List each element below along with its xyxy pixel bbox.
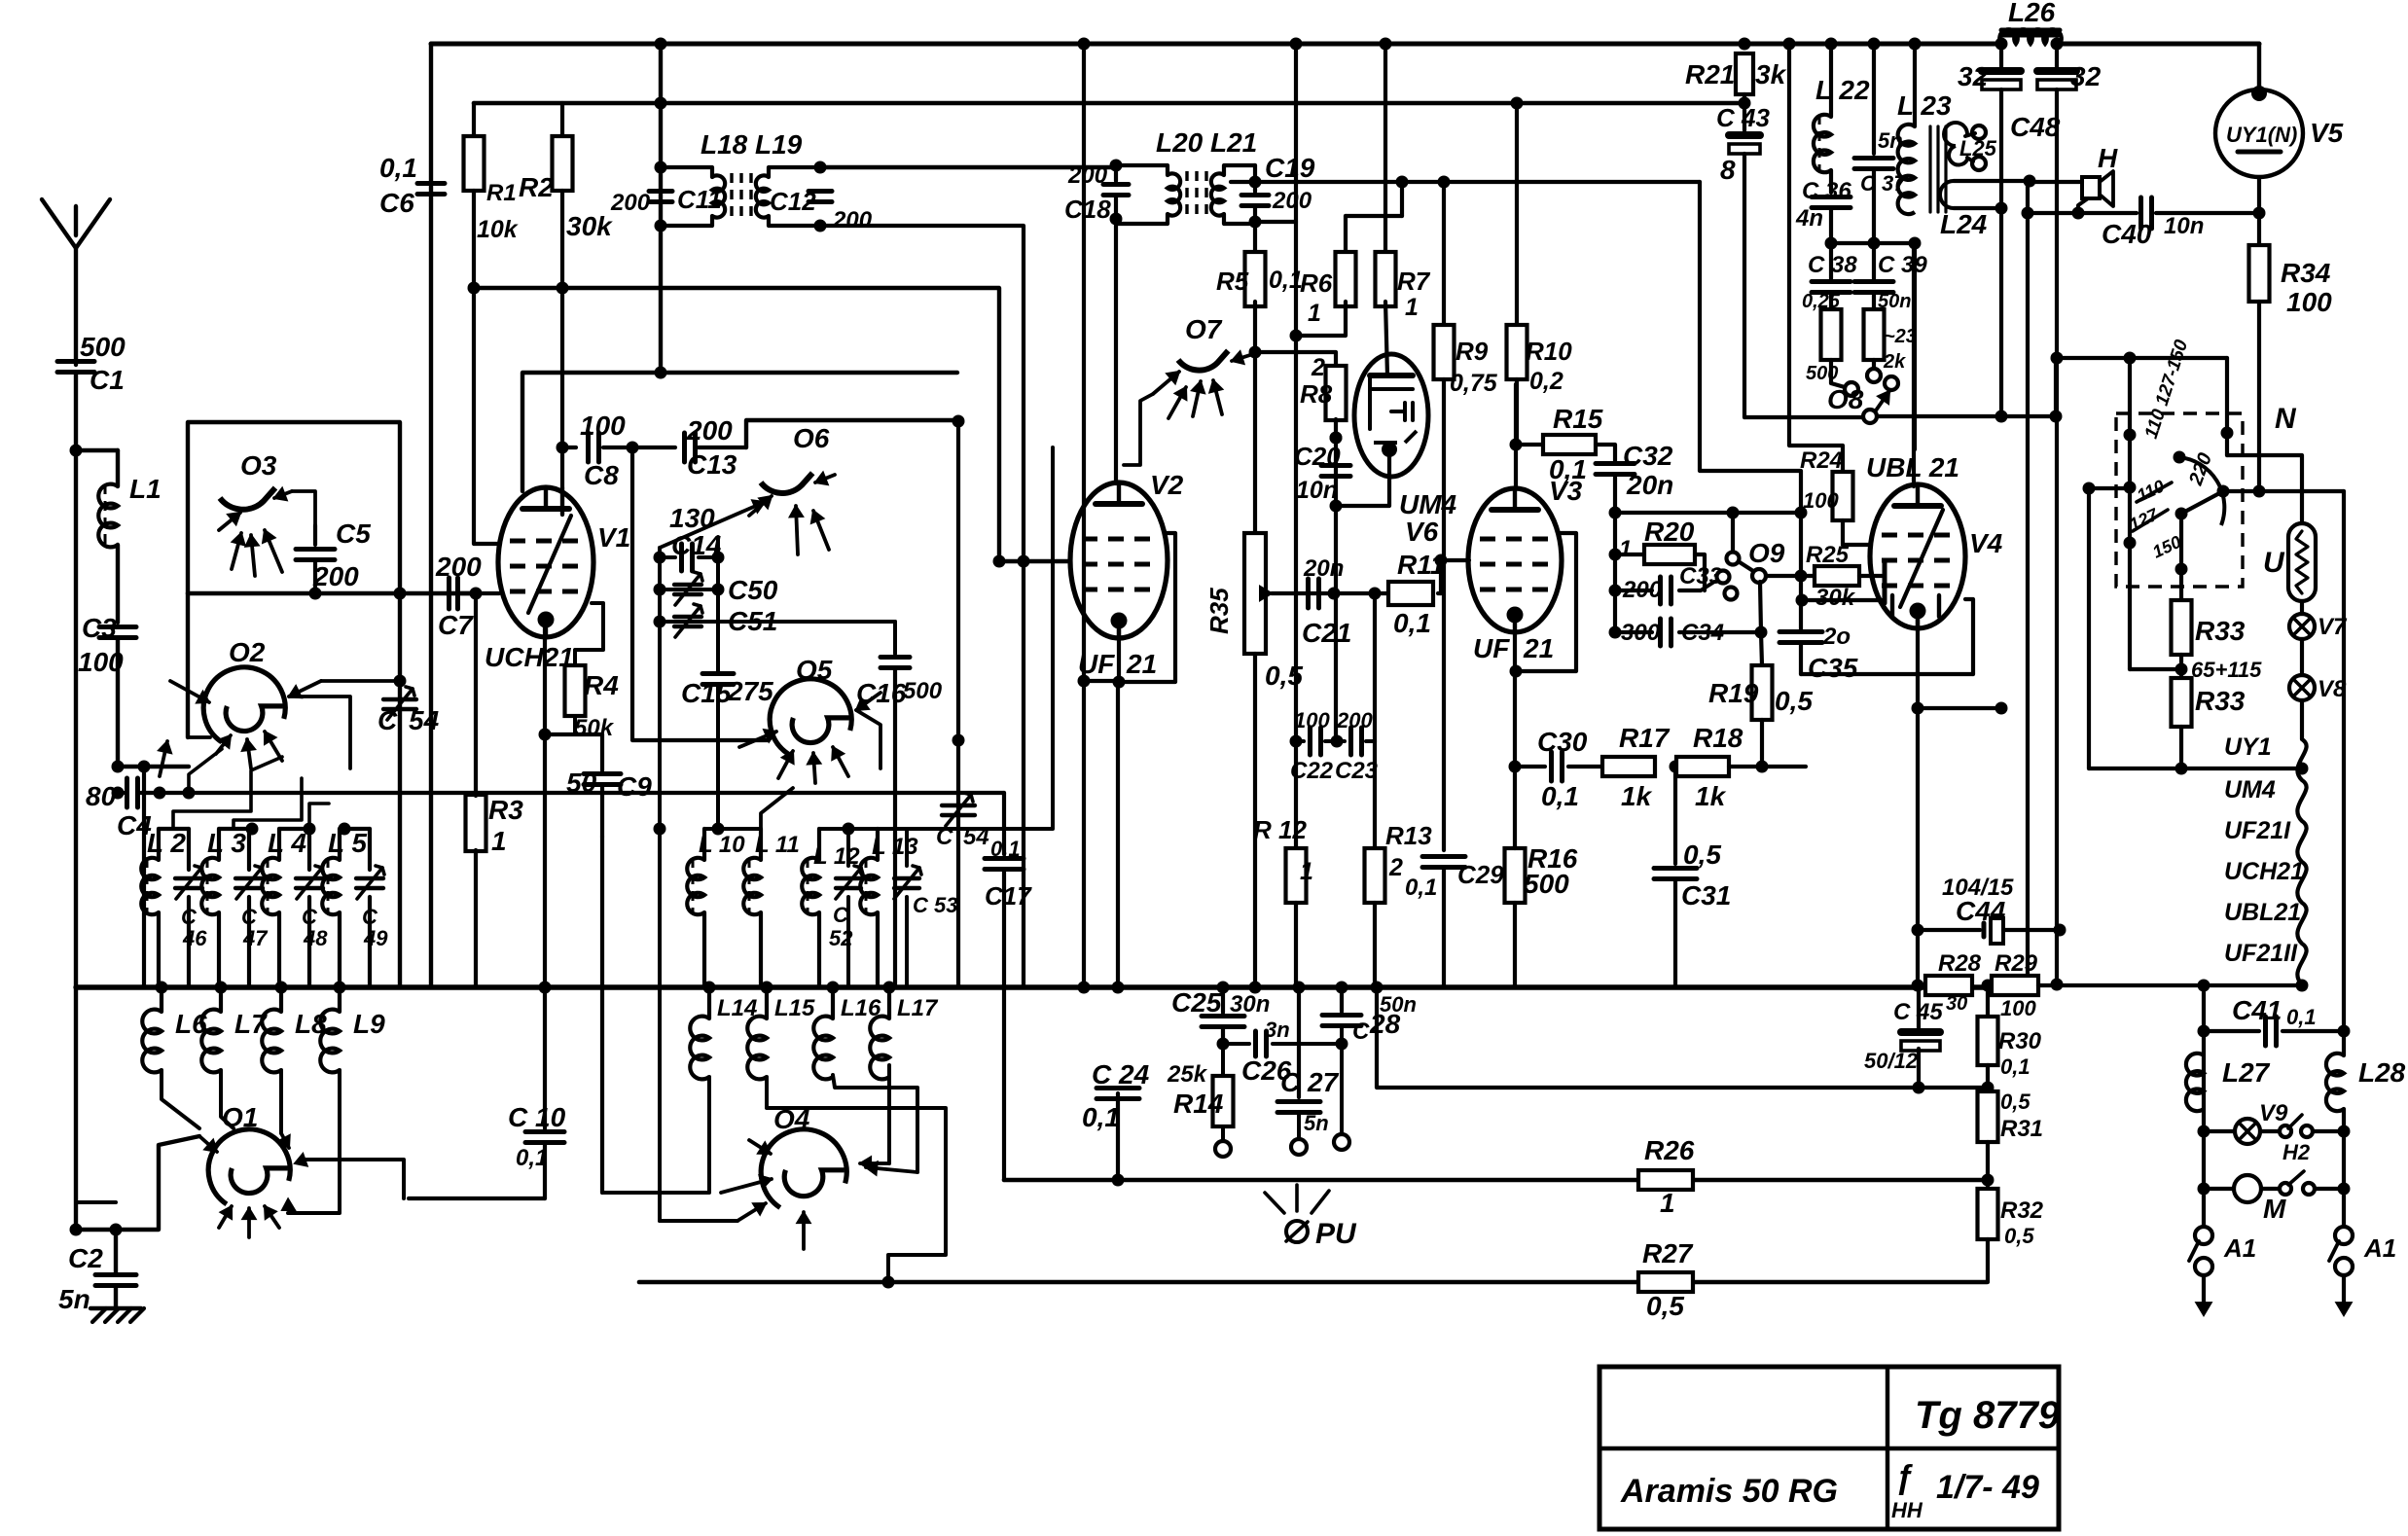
svg-text:C29: C29	[1457, 860, 1504, 889]
svg-text:V2: V2	[1150, 470, 1184, 500]
svg-text:Aramis 50 RG: Aramis 50 RG	[1620, 1473, 1838, 1510]
wire speaker to L24	[2030, 180, 2082, 184]
svg-text:200: 200	[686, 415, 733, 446]
svg-text:R18: R18	[1693, 723, 1743, 753]
ground	[92, 1308, 106, 1322]
svg-text:300: 300	[1621, 620, 1661, 646]
lamp V8	[2300, 639, 2304, 675]
core L20/L21	[1185, 171, 1188, 220]
wire detector drop to O9	[1700, 182, 1801, 631]
wire voice coil to ground bus	[2026, 182, 2030, 987]
wire R12 column	[1294, 44, 1298, 848]
svg-text:50k: 50k	[574, 715, 615, 741]
svg-text:10n: 10n	[1296, 477, 1338, 504]
wire AVC to V1 grid	[474, 288, 500, 544]
resistor R13	[1373, 741, 1377, 848]
svg-text:R32: R32	[2000, 1197, 2044, 1224]
svg-text:C 43: C 43	[1716, 103, 1770, 132]
wire C9 to ground bus	[600, 837, 604, 1193]
wire detector line	[1231, 180, 1700, 184]
svg-text:UY1: UY1	[2224, 733, 2272, 761]
inductor L28	[2342, 491, 2346, 1055]
svg-text:C12: C12	[770, 187, 816, 216]
svg-text:46: 46	[182, 926, 207, 950]
svg-text:52: 52	[829, 926, 853, 950]
svg-text:2: 2	[1311, 354, 1325, 381]
wire O9 to R25	[1766, 574, 1815, 578]
svg-text:L26: L26	[2008, 0, 2056, 27]
svg-text:R20: R20	[1644, 517, 1695, 547]
wire V2 cathode	[1117, 626, 1121, 682]
svg-text:A1: A1	[2363, 1233, 2396, 1263]
potentiometer R35	[1244, 533, 1266, 654]
variable capacitor C54	[383, 697, 416, 701]
inductor L15	[765, 987, 769, 1018]
trimmer capacitor C52	[836, 876, 861, 880]
svg-text:C 10: C 10	[508, 1102, 566, 1132]
svg-text:H2: H2	[2282, 1140, 2311, 1164]
svg-text:3k: 3k	[1755, 59, 1787, 89]
wire V3 anode	[1514, 384, 1518, 488]
inductor L26 mains choke	[2001, 28, 2060, 33]
svg-text:C35: C35	[1808, 653, 1858, 683]
svg-text:C23: C23	[1335, 758, 1379, 784]
wire bias rail	[1377, 987, 1988, 1088]
svg-text:L28: L28	[2358, 1057, 2406, 1088]
wire tank 2 top	[219, 827, 249, 831]
svg-text:C41: C41	[2232, 995, 2282, 1025]
resistor R16	[1505, 848, 1526, 903]
svg-text:L9: L9	[353, 1009, 385, 1039]
wire V2 screen box	[1119, 533, 1175, 682]
svg-text:UM4: UM4	[2224, 776, 2276, 804]
svg-text:C 36: C 36	[1802, 178, 1851, 204]
svg-text:C13: C13	[687, 449, 737, 480]
tube V6 UM4 magic eye	[1354, 354, 1428, 477]
node R28 R29 junction	[1982, 980, 1995, 992]
svg-text:8: 8	[1720, 155, 1736, 185]
wire O7 feed to R8/C20	[1255, 352, 1336, 366]
svg-text:H: H	[2098, 143, 2118, 173]
svg-text:L20: L20	[1156, 127, 1204, 158]
svg-text:10k: 10k	[477, 216, 519, 243]
wire L6-L9 to O1	[162, 1070, 199, 1128]
trimmer capacitor C50	[654, 584, 666, 596]
wire O6 box	[746, 420, 958, 447]
resistor R14	[1221, 1044, 1225, 1076]
wire heater return	[2089, 767, 2302, 770]
resistor R25	[1815, 566, 1859, 586]
wire tank 4 top	[340, 827, 370, 831]
svg-text:C20: C20	[1294, 442, 1341, 471]
svg-text:48: 48	[303, 926, 328, 950]
wire O9 pivot down	[1760, 582, 1761, 632]
capacitor C26	[1223, 1042, 1249, 1046]
svg-text:C30: C30	[1537, 727, 1588, 757]
resistor R8	[1326, 366, 1347, 420]
resistor R23	[1864, 309, 1885, 360]
tube V5 UY1 rectifier	[2257, 44, 2261, 92]
wire O5 right link	[856, 710, 881, 768]
svg-text:0,5: 0,5	[1683, 839, 1721, 870]
wire oscillator line	[188, 591, 476, 595]
svg-text:100: 100	[1803, 488, 1839, 513]
wire tank risers	[173, 757, 282, 829]
resistor R28	[1925, 976, 1972, 995]
svg-text:100: 100	[2000, 996, 2036, 1020]
node C25 C26	[1217, 1038, 1230, 1051]
svg-text:HH: HH	[1891, 1498, 1923, 1522]
wire left vertical from top bus	[429, 44, 433, 987]
svg-text:L19: L19	[755, 129, 803, 160]
svg-text:C31: C31	[1681, 880, 1731, 911]
svg-text:C 27: C 27	[1280, 1067, 1340, 1097]
svg-text:L 4: L 4	[268, 828, 306, 858]
inductor L27	[2186, 1054, 2204, 1111]
node R33 junction	[2175, 663, 2188, 676]
wire R27 line	[639, 1280, 1987, 1285]
resistor R33 upper	[2179, 569, 2183, 600]
wire tone network top	[1609, 507, 1622, 519]
wire L17 to O4	[887, 1065, 891, 1163]
node V1 grid top	[557, 442, 569, 454]
svg-text:1: 1	[1405, 294, 1419, 321]
svg-text:R2: R2	[519, 172, 554, 202]
svg-text:C9: C9	[617, 771, 652, 802]
trimmer capacitor C49	[356, 876, 383, 880]
dashed box N selector	[2116, 413, 2243, 587]
svg-text:R25: R25	[1806, 542, 1850, 568]
capacitor C28	[1340, 987, 1344, 1012]
capacitor C22	[1290, 735, 1303, 748]
trimmer capacitor C51	[654, 616, 666, 628]
wire L22 block bottom	[1831, 241, 1915, 245]
resistor R6	[1344, 216, 1348, 257]
svg-text:V4: V4	[1969, 528, 2003, 558]
svg-text:V1: V1	[597, 522, 630, 553]
svg-text:R31: R31	[2000, 1116, 2043, 1142]
svg-text:C40: C40	[2102, 219, 2152, 249]
resistor R1	[472, 103, 476, 136]
svg-text:C6: C6	[379, 188, 414, 218]
svg-text:0,1: 0,1	[1393, 608, 1431, 638]
svg-text:200: 200	[435, 552, 482, 582]
wire L19 bottom to V2 grid	[820, 226, 1024, 987]
svg-text:~23: ~23	[1884, 326, 1917, 347]
capacitor C11	[655, 161, 667, 174]
wire O2 right to L-taps	[289, 697, 350, 768]
svg-text:UF21I: UF21I	[2224, 817, 2291, 844]
resistor R19	[1755, 626, 1768, 639]
svg-text:R7: R7	[1397, 267, 1431, 296]
svg-text:1: 1	[1300, 858, 1313, 885]
wire O1 box left	[116, 1136, 199, 1230]
svg-text:L15: L15	[774, 995, 815, 1021]
switch H2	[2260, 1129, 2279, 1133]
svg-text:UCH21: UCH21	[485, 642, 574, 672]
svg-text:5n: 5n	[58, 1284, 90, 1314]
capacitor C48 right 32	[2055, 44, 2059, 68]
inductor L7	[219, 987, 223, 1012]
svg-text:UF: UF	[1473, 633, 1510, 663]
wire tank 3 top	[279, 827, 309, 831]
inductor L14	[707, 987, 711, 1018]
wire C8 tap down to O5	[632, 447, 769, 740]
svg-text:0,1: 0,1	[1405, 875, 1437, 901]
svg-text:L1: L1	[129, 474, 162, 504]
svg-text:200: 200	[312, 561, 359, 591]
resistor R15	[1516, 443, 1542, 447]
resistor R33 lower	[2172, 678, 2192, 727]
tube V1 UCH21	[498, 487, 593, 637]
inductor L21	[1224, 165, 1255, 175]
wire L19 top to L20	[820, 165, 1116, 169]
svg-text:C15: C15	[681, 678, 732, 708]
inductor L17	[887, 987, 891, 1018]
resistor R24	[1833, 472, 1853, 520]
svg-text:100: 100	[2286, 287, 2332, 317]
svg-text:C: C	[377, 705, 398, 735]
svg-text:25k: 25k	[1167, 1061, 1208, 1088]
svg-text:C50: C50	[728, 575, 778, 605]
svg-text:130: 130	[669, 503, 715, 533]
wire mains top line	[2056, 358, 2227, 416]
svg-text:O7: O7	[1185, 314, 1223, 344]
svg-text:C 39: C 39	[1878, 252, 1927, 278]
trimmer capacitor C48	[296, 876, 323, 880]
resistor R21	[1739, 38, 1751, 51]
capacitor C17	[1002, 793, 1006, 854]
resistor R3	[466, 795, 486, 851]
svg-text:21: 21	[1523, 633, 1554, 663]
wire V1 anode riser	[522, 373, 957, 491]
core L18/L19	[730, 173, 733, 222]
plug A1 right	[2335, 1227, 2353, 1244]
svg-text:1: 1	[1619, 536, 1632, 562]
svg-text:2o: 2o	[1822, 624, 1851, 650]
svg-text:3n: 3n	[1265, 1018, 1290, 1042]
wire IF1 tank vertical	[659, 44, 663, 373]
svg-text:L18: L18	[701, 129, 748, 160]
svg-text:80: 80	[86, 781, 117, 811]
capacitor C39	[1854, 279, 1893, 284]
wire ground bus	[76, 984, 2028, 989]
resistor R12	[1286, 848, 1307, 903]
wire N box left column	[2087, 488, 2091, 768]
resistor R17	[1602, 757, 1655, 776]
wire mains tap 220	[2223, 489, 2344, 493]
svg-text:Tg 8779: Tg 8779	[1915, 1394, 2061, 1437]
svg-text:C19: C19	[1265, 153, 1315, 183]
svg-text:200: 200	[1067, 162, 1108, 189]
inductor L25	[1944, 123, 1967, 146]
svg-text:1k: 1k	[1695, 781, 1727, 811]
svg-text:O9: O9	[1748, 538, 1785, 568]
svg-text:500: 500	[1524, 869, 1569, 899]
svg-text:L 3: L 3	[207, 828, 246, 858]
resistor R10	[1515, 103, 1519, 323]
svg-text:2: 2	[1388, 854, 1403, 881]
svg-text:R3: R3	[488, 795, 523, 825]
capacitor C35	[1779, 629, 1822, 634]
svg-text:100: 100	[580, 411, 626, 441]
capacitor C48 left 32	[1999, 44, 2003, 68]
svg-text:0,1: 0,1	[1082, 1102, 1120, 1132]
resistor R5	[1245, 252, 1266, 306]
wire V5 cathode	[2257, 177, 2261, 213]
capacitor C21	[1306, 579, 1311, 608]
wire lamp column	[2202, 985, 2206, 1228]
svg-text:0,2: 0,2	[1529, 368, 1563, 395]
svg-text:C7: C7	[438, 610, 474, 640]
inductor L19	[769, 167, 820, 177]
wire L15 to O4	[767, 1077, 946, 1282]
svg-text:200: 200	[1336, 708, 1373, 732]
svg-text:R26: R26	[1644, 1135, 1695, 1165]
svg-text:C 45: C 45	[1893, 999, 1943, 1025]
svg-text:R30: R30	[1998, 1028, 2042, 1054]
plug A1 left	[2195, 1227, 2212, 1244]
svg-text:54: 54	[963, 824, 989, 850]
svg-text:C48: C48	[2010, 112, 2061, 142]
svg-text:200: 200	[1272, 188, 1312, 214]
resistor R29	[1992, 976, 2038, 995]
capacitor C32	[1596, 445, 1615, 461]
resistor R26	[1638, 1170, 1693, 1190]
wire V4 cathode	[1916, 613, 1920, 985]
svg-text:R19: R19	[1708, 678, 1759, 708]
svg-text:30k: 30k	[566, 211, 613, 241]
heater chain filaments	[2300, 700, 2304, 739]
node antenna-C2 junction	[70, 1224, 83, 1236]
svg-text:C 53: C 53	[913, 893, 957, 917]
wire V3 screen box	[1516, 533, 1576, 671]
wire R26 line	[1004, 1178, 1988, 1183]
antenna	[74, 248, 78, 365]
svg-text:32: 32	[2070, 61, 2102, 91]
svg-text:C51: C51	[728, 606, 777, 636]
svg-text:28: 28	[1369, 1009, 1401, 1039]
svg-text:R28: R28	[1938, 950, 1982, 977]
svg-text:R27: R27	[1642, 1238, 1694, 1268]
svg-text:65+115: 65+115	[2191, 658, 2262, 682]
wire U top	[2227, 455, 2302, 523]
capacitor C27	[1297, 987, 1301, 1097]
svg-text:C32: C32	[1623, 441, 1673, 471]
resistor R4	[575, 603, 603, 664]
capacitor C45	[1917, 985, 1921, 1029]
capacitor C20	[1330, 432, 1343, 445]
switch mains selector	[2128, 358, 2132, 543]
svg-text:V5: V5	[2310, 118, 2344, 148]
wire O5 col to O4	[660, 1219, 737, 1223]
svg-text:1: 1	[491, 826, 507, 856]
capacitor C29	[1422, 854, 1465, 859]
svg-text:ƒ: ƒ	[1895, 1459, 1914, 1496]
wire V4 grid bar	[1883, 560, 1887, 603]
wire L14 to O4	[602, 1077, 709, 1193]
inductor L22	[1829, 44, 1833, 117]
resistor R18	[1676, 757, 1729, 776]
wire V6 cathode	[1336, 449, 1389, 506]
wire V6 chain down	[1334, 506, 1338, 741]
svg-text:32: 32	[1958, 61, 1989, 91]
svg-text:C: C	[1352, 1018, 1370, 1045]
node AVC junction	[468, 282, 481, 295]
capacitor C40	[2028, 211, 2137, 215]
wire O2 left feed	[188, 735, 210, 739]
capacitor C5	[313, 525, 317, 545]
svg-text:O8: O8	[1827, 384, 1864, 414]
svg-text:200: 200	[610, 190, 651, 216]
capacitor C25	[1221, 987, 1225, 1013]
capacitor C23	[1331, 735, 1344, 748]
capacitor C38	[1812, 279, 1851, 284]
svg-text:R13: R13	[1385, 821, 1432, 850]
wire C35 to V4 beam	[1801, 672, 1973, 676]
svg-text:C25: C25	[1171, 987, 1222, 1018]
core L23	[1928, 126, 1931, 212]
wire top B+ bus	[431, 42, 2001, 47]
resistor R22	[1821, 309, 1842, 360]
capacitor C43	[1743, 103, 1746, 130]
capacitor C31	[1673, 767, 1677, 864]
inductor L16	[831, 987, 835, 1018]
svg-text:0,5: 0,5	[2004, 1224, 2034, 1248]
svg-text:500: 500	[80, 332, 126, 362]
svg-text:O3: O3	[240, 450, 277, 481]
svg-text:200: 200	[1622, 577, 1663, 603]
svg-text:L25: L25	[1959, 136, 1997, 161]
svg-text:0,1: 0,1	[1549, 454, 1587, 484]
wire L21 bottom to R12 column	[1255, 220, 1296, 224]
svg-text:1k: 1k	[1621, 781, 1653, 811]
svg-text:2k: 2k	[1883, 351, 1906, 373]
svg-text:R6: R6	[1300, 268, 1333, 298]
wire AVC line to V2 grid	[474, 288, 1070, 561]
svg-text:C: C	[936, 824, 953, 850]
wire second bus	[474, 101, 1744, 106]
wire R24 riser from bus	[1783, 38, 1796, 51]
resistor R11	[1388, 582, 1433, 605]
wire O6 feeds	[658, 548, 662, 557]
wire AVC row 1	[118, 765, 189, 768]
wire B+ vertical mid	[1082, 44, 1086, 987]
trimmer capacitor C47	[235, 876, 263, 880]
resistor R34	[2257, 213, 2261, 245]
trimmer capacitor C46	[175, 876, 202, 880]
inductor L20	[1116, 165, 1168, 175]
wire C51 col down	[658, 622, 662, 1221]
svg-text:L 23: L 23	[1897, 90, 1952, 121]
capacitor C8	[562, 446, 576, 449]
wire cathode to C48 column	[1918, 706, 2001, 710]
inductor L1	[76, 448, 118, 452]
svg-text:PU: PU	[1315, 1218, 1357, 1250]
wire R35 wiper	[1260, 587, 1272, 600]
wire osc tank tops	[704, 827, 761, 831]
svg-text:500: 500	[903, 678, 943, 704]
svg-text:4n: 4n	[1795, 205, 1823, 232]
capacitor C7	[446, 591, 476, 595]
lamp V7	[2300, 601, 2304, 614]
inductor L9	[338, 987, 341, 1012]
wire to O9 contact	[1727, 507, 1740, 519]
svg-text:UF21II: UF21II	[2224, 940, 2298, 967]
capacitor C9	[600, 734, 604, 770]
resistor R30	[1986, 985, 1990, 1017]
svg-text:49: 49	[363, 926, 388, 950]
